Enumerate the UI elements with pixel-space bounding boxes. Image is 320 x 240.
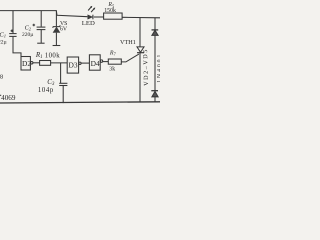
- svg-text:LED: LED: [82, 20, 95, 27]
- svg-text:3k: 3k: [109, 66, 115, 72]
- svg-text:D4: D4: [91, 59, 100, 68]
- svg-text:22µ: 22µ: [0, 39, 7, 45]
- svg-text:D3: D3: [69, 61, 78, 70]
- svg-text:4069: 4069: [1, 94, 16, 102]
- svg-text:1N4001: 1N4001: [157, 53, 160, 83]
- svg-text:R7: R7: [109, 50, 117, 56]
- svg-text:VD2–VD5: VD2–VD5: [142, 48, 150, 86]
- svg-text:VTH1: VTH1: [120, 39, 136, 46]
- svg-text:6V: 6V: [60, 27, 68, 33]
- svg-text:150k: 150k: [104, 8, 116, 14]
- svg-text:220µ: 220µ: [22, 32, 33, 38]
- svg-text:104p: 104p: [38, 87, 54, 94]
- svg-text:D2: D2: [22, 59, 31, 68]
- svg-text:100k: 100k: [45, 52, 60, 59]
- svg-text:8: 8: [0, 73, 3, 80]
